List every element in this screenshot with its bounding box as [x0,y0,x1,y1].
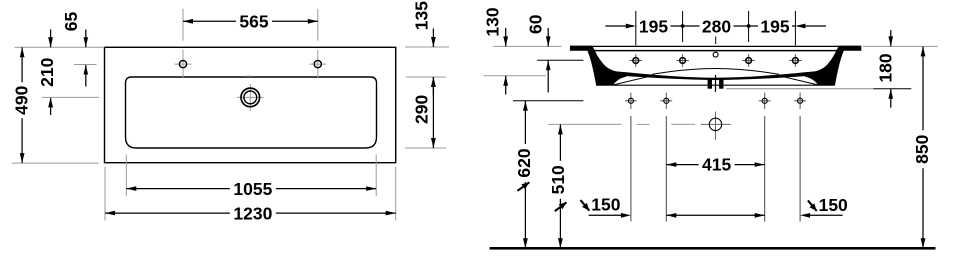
svg-text:195: 195 [760,16,789,36]
faucet hole left (plan) [175,63,192,65]
faucet hole right (plan) [309,63,326,65]
elevation: overflow hole circle [713,52,718,57]
svg-text:135: 135 [412,1,432,30]
svg-text:210: 210 [37,57,57,86]
svg-text:620: 620 [514,148,534,177]
dimension 150 right: outside arrow, label, slope arrow [808,200,817,211]
svg-text:850: 850 [912,134,932,163]
svg-text:60: 60 [525,14,545,34]
fixing holes: vertical extension lines downward [630,116,632,222]
svg-text:565: 565 [239,12,268,32]
elevation: centerline stub above rim [715,37,717,45]
svg-text:290: 290 [412,95,432,124]
dimension 1055 (basin width): extension lines [125,155,127,196]
dimension 210 (top edge to drain): outside arrows and label [50,30,52,48]
elevation: hidden edge diagonal left [613,75,654,85]
elevation: basin underside line [596,84,834,86]
dimension 415: dimension line with arrows and label [666,164,764,166]
dimension 290 (right): dimension line with arrows and label [405,147,446,149]
svg-text:490: 490 [12,85,32,114]
dimension 130 (left): outside arrows and label [493,45,561,47]
elevation: drain flange bars below bowl [708,80,712,89]
elevation: drain centerline [715,75,717,92]
dimension 490: dimension line with arrows and label [21,47,23,163]
svg-text:510: 510 [548,165,568,194]
svg-text:415: 415 [702,155,731,175]
svg-text:1055: 1055 [233,179,272,199]
dimension 65 (top edge to faucet line): outside arrows and label [85,30,87,48]
elevation: hidden edge diagonal right [778,75,819,85]
dimension 850: dimension line, arrows, label [922,46,924,248]
dimension 1055: dimension line with arrows and label [126,188,376,190]
elevation: deck faucet holes row (4 crosshairs) [630,60,643,62]
svg-text:180: 180 [876,53,896,82]
plan view: overflow slot tick at basin top edge [247,75,253,77]
svg-text:280: 280 [702,16,731,36]
dimension 510: extension line segments at outlet level [548,123,621,125]
elevation: central outlet hole crosshair [701,123,731,125]
dimension 150 middle shared arrows [666,214,764,216]
dimension 620: extension line at fixing holes level [513,100,583,102]
svg-text:65: 65 [61,12,81,32]
elevation: lower fixing holes row (4 crosshairs) [625,100,637,102]
elevation: bowl bottom thick curve (filled band) [613,71,818,80]
dimension 135 (right): outside arrows and label [405,46,449,48]
elevation: far-side bowl silhouette arc [652,69,779,75]
elevation: right rim lip + wall cross-section (filled) [805,46,861,85]
dimension 565 (faucet hole spacing): extension lines [182,9,184,41]
dimension 1230: dimension line with arrows and label [105,212,396,214]
dimension 510: dimension line, arrows, label, slope arrow [559,124,561,248]
dimension 180 (right): outside arrows and label [863,45,938,47]
dimension 1230 (overall width): extension lines [104,167,106,221]
svg-text:150: 150 [591,195,620,215]
elevation: rim top line [570,45,861,47]
elevation: left rim lip + wall cross-section (filled) [570,46,626,85]
dimension row 195/280/195: extension lines [635,11,637,46]
plan view: outer rectangle (washbasin 1230x490) [105,47,396,162]
svg-text:1230: 1230 [233,203,272,223]
dimension 620: dimension line, arrows, label, slope arrow [524,101,526,248]
svg-text:150: 150 [819,195,848,215]
dimension row 195/280/195: dimension line, outside arrows, dots [605,25,634,27]
elevation: deck front edge line [591,50,840,52]
dimension 60 (left): outside arrows and label [537,59,583,61]
svg-text:130: 130 [483,7,503,36]
plan view: inner basin rounded rectangle [126,77,377,148]
dimension 490 (left): extension lines [15,46,105,48]
drain (plan): double circle with crosshair [237,96,264,98]
svg-text:195: 195 [639,16,668,36]
dimension 565: dimension line with arrows and label [183,20,318,22]
ground line [490,247,936,250]
dimension 150 left: outside arrow, label, slope arrow [581,200,590,211]
elevation: line under drain to 180 reference [726,88,873,90]
